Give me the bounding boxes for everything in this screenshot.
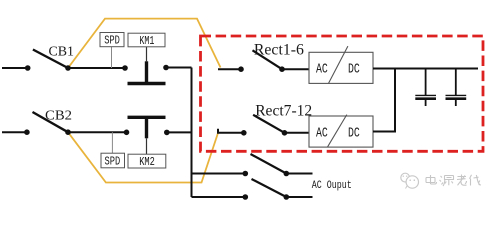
代 [470,175,482,186]
KM1 coil link [146,47,148,62]
wire AC output row2 from bus [192,196,246,198]
node top input [25,65,31,71]
wire Rect1-6 to rectifier [282,68,309,70]
svg-text:SPD: SPD [104,35,120,48]
svg-text:DC: DC [348,126,360,142]
contactor KM2 box [128,154,166,168]
wire DC output bus top [373,68,478,70]
svg-text:AC: AC [316,126,328,142]
node CB2 output [65,129,71,135]
wire Rect7-12 input [218,129,244,133]
老 [457,175,467,186]
node Rect1-6 right [279,66,285,72]
wire bottom-left input stub [2,131,27,133]
breaker CB2 blade [33,112,69,132]
rectifier module 1 diagonal [329,46,348,83]
node output row2 right [284,194,290,200]
contactor KM2 contact (T symbol) [128,116,166,119]
yellow route highlight top (CB1 to Rect1-6) [68,19,221,68]
node bottom input [24,129,30,135]
svg-text:Rect7-12: Rect7-12 [255,102,312,119]
wire Rect1-6 input [218,68,241,70]
node output row2 left [243,194,249,200]
svg-text:KM1: KM1 [139,35,154,48]
SPD arrester top box [100,33,124,47]
wire CB2 to KM2 contact [68,131,127,133]
contactor KM1 box [128,33,165,47]
node output row1 right [284,171,290,177]
rectifier module 1 box [309,52,373,83]
wire top-left input stub [2,67,28,69]
wire AC output row1 from bus [192,173,246,175]
node Rect1-6 left [238,66,244,72]
rectifier module 2 diagonal [327,115,346,148]
wire KM2 contact to bus [167,131,192,133]
svg-text:CB1: CB1 [49,45,75,60]
node KM1 contact right [163,65,169,71]
node Rect7-12 right [282,130,288,136]
node CB1 output [65,65,71,71]
switch output row1 blade [251,154,287,174]
源 [440,176,454,187]
SPD arrester bottom box [101,153,125,168]
SPD link bottom [111,132,113,153]
wire CB1 to KM1 contact [68,67,125,69]
watermark text 电源老代 (simplified strokes) [426,175,481,187]
node Rect7-12 left [241,130,247,136]
KM2 coil link [146,138,148,154]
电 [426,175,437,184]
breaker CB1 blade [33,50,68,69]
SPD link top [111,47,113,68]
red dashed enclosure (rectifier cabinet) [201,36,484,151]
yellow route highlight bottom (CB2 to Rect7-12) [68,132,218,182]
capacitor C1 [415,69,436,107]
switch output row2 blade [252,179,287,197]
svg-text:AC: AC [316,62,328,78]
capacitor C2 [446,69,467,107]
svg-text:DC: DC [348,62,360,78]
switch Rect7-12 blade [253,115,284,133]
svg-text:CB2: CB2 [45,109,72,124]
watermark wechat icon [401,173,419,188]
node KM2 contact left [124,130,130,136]
svg-text:KM2: KM2 [139,156,155,169]
wire module2 output riser [373,69,395,132]
bus vertical distribution [191,68,193,198]
node KM1 contact left [122,65,128,71]
wire output row2 right [286,196,312,198]
wire output row1 right [286,173,312,175]
svg-text:SPD: SPD [105,156,121,169]
node output row1 left [243,171,249,177]
contactor KM1 contact (T symbol) [145,61,148,82]
svg-text:AC Ouput: AC Ouput [312,180,352,192]
node KM2 contact right [164,130,170,136]
switch Rect1-6 blade [253,50,283,69]
rectifier module 2 box [309,116,373,147]
wire KM1 contact to bus [166,67,192,69]
wire Rect7-12 to rectifier [285,132,310,134]
